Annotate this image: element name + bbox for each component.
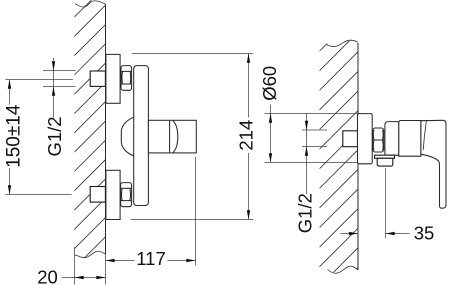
lower hex nut bbox=[121, 183, 132, 207]
dim 214 extension line bottom bbox=[131, 219, 254, 221]
dim 214 arrow down bbox=[247, 210, 250, 219]
dim 214 arrow up bbox=[247, 54, 250, 63]
dim G1/2 left arrow up bbox=[52, 87, 55, 96]
dim 150±14 extension line top bbox=[5, 79, 73, 81]
wall right view face line bbox=[357, 43, 359, 270]
svg-text:214: 214 bbox=[235, 120, 256, 151]
side view inlet stub bbox=[343, 131, 358, 147]
svg-text:35: 35 bbox=[414, 223, 435, 244]
dim 35 line right segment bbox=[386, 233, 410, 235]
handle cap arc bbox=[173, 121, 178, 153]
upper hex nut bbox=[121, 66, 132, 91]
dim G1/2 left arrow down bbox=[52, 61, 55, 70]
dim G1/2 right extension line top bbox=[302, 129, 327, 131]
mixer body column bbox=[134, 66, 149, 206]
upper escutcheon plate bbox=[106, 54, 120, 103]
outlet centerline bbox=[385, 168, 387, 239]
dim G1/2 left extension line bottom bbox=[43, 86, 76, 88]
side view lever handle bbox=[421, 120, 446, 208]
dim Ø60 line bbox=[270, 105, 272, 163]
svg-text:150±14: 150±14 bbox=[3, 104, 24, 168]
dim Ø60 arrow up bbox=[269, 114, 272, 123]
wall left view face line bbox=[105, 4, 107, 254]
dim 117 line bbox=[106, 260, 135, 262]
wall right view bottom break line bbox=[328, 266, 359, 273]
dim Ø60 extension line top bbox=[265, 113, 358, 115]
dim G1/2 right line bbox=[306, 114, 308, 195]
svg-text:G1/2: G1/2 bbox=[44, 116, 65, 156]
dim 150±14 arrow up bbox=[8, 80, 11, 89]
wall left view hatched band bbox=[74, 0, 105, 285]
dim G1/2 right arrow down bbox=[305, 121, 308, 130]
dim 20 extension line left bbox=[74, 247, 76, 285]
upper inlet pipe stub bbox=[90, 71, 105, 86]
dim 35 line left segment bbox=[341, 233, 359, 235]
wall face extension below bbox=[105, 254, 107, 284]
dim 35 arrow right bbox=[349, 232, 358, 235]
svg-text:20: 20 bbox=[37, 266, 58, 285]
dim 214 line bbox=[248, 54, 250, 118]
dim 150±14 line bbox=[9, 80, 11, 105]
dim 150±14 arrow down bbox=[8, 185, 11, 194]
shower outlet hose nut bbox=[377, 158, 393, 166]
handle neck joint line bbox=[423, 121, 426, 150]
mixer body trim dome (bulge toward wall) bbox=[121, 117, 134, 156]
dim Ø60 arrow down bbox=[269, 153, 272, 162]
handle hub and lever (front view) bbox=[148, 120, 196, 153]
lower escutcheon plate bbox=[106, 170, 120, 219]
side view cartridge housing bbox=[399, 121, 421, 157]
dim 117 arrow left bbox=[106, 259, 115, 262]
svg-text:G1/2: G1/2 bbox=[295, 193, 316, 233]
shower outlet flange bbox=[375, 155, 395, 158]
cartridge joint line bbox=[169, 120, 171, 152]
dim 214 extension line top bbox=[132, 53, 253, 55]
side view body sleeve bbox=[385, 122, 399, 156]
dim 20 arrow right bbox=[96, 276, 105, 279]
dim G1/2 left line bbox=[53, 58, 55, 118]
dim 117 extension line right bbox=[195, 157, 197, 266]
dim G1/2 right arrow up bbox=[305, 147, 308, 156]
dim 117 arrow right bbox=[186, 259, 195, 262]
svg-text:117: 117 bbox=[136, 248, 166, 269]
dim 35 arrow left bbox=[386, 232, 395, 235]
wall right view hatched band bbox=[320, 0, 359, 285]
dim G1/2 left extension line top bbox=[43, 70, 76, 72]
dim G1/2 right extension line bottom bbox=[302, 146, 327, 148]
wall left view top break line bbox=[75, 1, 106, 7]
side view escutcheon plate bbox=[358, 114, 373, 164]
wall left view bottom break line bbox=[74, 251, 105, 257]
lower inlet pipe stub bbox=[90, 187, 105, 203]
svg-text:Ø60: Ø60 bbox=[259, 66, 280, 101]
wall right view top break line bbox=[327, 40, 359, 46]
side view hex nut bbox=[373, 128, 384, 152]
dim 20 arrow left bbox=[75, 276, 84, 279]
dim 20 line bbox=[62, 277, 106, 279]
dim 150±14 extension line bottom bbox=[5, 194, 71, 196]
dim Ø60 extension line bottom bbox=[265, 162, 358, 164]
